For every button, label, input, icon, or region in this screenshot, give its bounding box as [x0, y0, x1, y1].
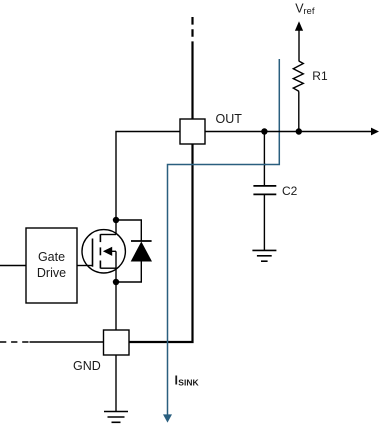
wire: dashed drain stub (top): [191, 17, 193, 50]
capacitor C2: [253, 186, 276, 195]
diode: body diode (cathode bar, anode triangle): [116, 220, 152, 282]
svg-text:GND: GND: [73, 359, 101, 373]
node: source junction dot: [113, 279, 119, 285]
transistor Q1 MOSFET circle: [82, 230, 125, 273]
svg-text:Drive: Drive: [37, 266, 66, 280]
wire: source to GND pin: [115, 251, 117, 330]
transistor Q1 gate bar: [92, 239, 94, 267]
node: junction dot at C2 tap: [261, 128, 267, 134]
pin GND (box): [104, 330, 130, 355]
label Gate Drive: [37, 250, 66, 280]
svg-text:Gate: Gate: [38, 250, 65, 264]
svg-text:C2: C2: [282, 184, 298, 198]
wire: blue sense path (upper run from R1 node): [265, 59, 279, 165]
wire: dashed GND net stub (left): [0, 341, 30, 343]
node: junction dot at R1 tap: [296, 128, 302, 134]
wire: GND pin to ground symbol: [115, 355, 117, 412]
label Vref: [295, 2, 315, 17]
wire: C2 to ground: [263, 194, 265, 250]
wire: OUT pin down to GND net (thick L): [129, 144, 193, 342]
wire: gate drive output to gate: [77, 265, 93, 267]
transistor Q1 drain lead: [100, 234, 116, 236]
transistor Q1 source lead: [100, 267, 116, 269]
ground (below C2): [252, 250, 276, 261]
resistor R1: [293, 61, 303, 91]
wire: OUT vertical (drain to OUT pin): [191, 49, 193, 119]
svg-text:OUT: OUT: [216, 112, 243, 126]
block: Gate Drive: [26, 228, 77, 303]
wire: R1 to output node: [298, 91, 300, 131]
svg-text:R1: R1: [312, 69, 328, 83]
pin OUT (box): [180, 119, 205, 144]
svg-text:SINK: SINK: [178, 377, 199, 387]
svg-text:ref: ref: [303, 6, 314, 17]
wire: OUT to MOSFET drain: [116, 132, 180, 235]
wire: GND net left of pin: [30, 341, 105, 343]
wire: main output wire with arrow: [205, 131, 372, 133]
ground (below GND pin): [104, 412, 128, 423]
wire: gate drive input stub: [0, 265, 26, 267]
wire: blue sense path (lower run to ISINK arrow): [163, 165, 266, 423]
node: drain junction dot: [113, 217, 119, 223]
wire: Vref arrow: [298, 31, 300, 62]
transistor Q1 body arrow: [103, 247, 116, 256]
transistor Q1 channel segments: [99, 234, 101, 268]
wire: output node down to C2: [263, 132, 265, 186]
label ISINK: [175, 374, 200, 388]
